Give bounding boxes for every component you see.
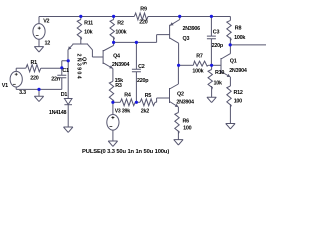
svg-text:R1: R1: [31, 60, 38, 66]
svg-text:22n: 22n: [51, 76, 60, 82]
svg-text:PULSE(0 3.3 50u 1n 1n 50u 100u: PULSE(0 3.3 50u 1n 1n 50u 100u): [82, 149, 169, 155]
svg-text:100k: 100k: [115, 30, 126, 36]
svg-text:220p: 220p: [137, 78, 149, 84]
svg-text:C3: C3: [213, 30, 220, 36]
svg-text:10k: 10k: [84, 30, 92, 36]
svg-text:10k: 10k: [214, 81, 222, 87]
svg-text:R9: R9: [140, 7, 147, 13]
svg-text:2k2: 2k2: [141, 109, 149, 115]
svg-text:R5: R5: [145, 93, 152, 99]
svg-text:2N3904: 2N3904: [229, 68, 247, 74]
svg-text:Q2: Q2: [177, 92, 184, 98]
svg-text:V3: V3: [115, 109, 121, 115]
svg-text:3.3: 3.3: [19, 90, 26, 96]
svg-text:100k: 100k: [192, 68, 203, 74]
svg-text:1N4148: 1N4148: [49, 110, 67, 116]
svg-text:R12: R12: [234, 90, 243, 96]
svg-text:Q5: Q5: [80, 57, 86, 65]
svg-text:2N3904: 2N3904: [176, 100, 194, 106]
svg-text:R3: R3: [115, 83, 122, 89]
svg-text:V2: V2: [43, 19, 49, 25]
svg-text:C1: C1: [62, 68, 69, 74]
svg-text:R8: R8: [235, 26, 242, 32]
svg-text:R11: R11: [84, 21, 93, 27]
svg-text:D1: D1: [61, 92, 68, 98]
svg-text:Q3: Q3: [183, 36, 190, 42]
svg-text:220: 220: [139, 20, 147, 26]
svg-text:39k: 39k: [122, 109, 130, 115]
svg-text:R10: R10: [215, 70, 224, 76]
svg-text:R2: R2: [117, 21, 124, 27]
svg-text:V1: V1: [2, 83, 8, 89]
svg-text:Q1: Q1: [230, 58, 237, 64]
svg-text:R6: R6: [183, 118, 190, 124]
svg-text:220: 220: [30, 75, 38, 81]
svg-text:C2: C2: [138, 64, 145, 70]
svg-text:100k: 100k: [234, 35, 245, 41]
svg-text:2N3904: 2N3904: [112, 62, 130, 68]
svg-text:12: 12: [45, 41, 51, 47]
svg-text:Q4: Q4: [113, 53, 120, 59]
svg-text:100: 100: [234, 99, 242, 105]
svg-text:R4: R4: [124, 93, 131, 99]
svg-text:2N3906: 2N3906: [183, 26, 201, 32]
svg-text:100: 100: [183, 125, 191, 131]
svg-text:R7: R7: [196, 54, 203, 60]
svg-text:220p: 220p: [212, 43, 224, 49]
